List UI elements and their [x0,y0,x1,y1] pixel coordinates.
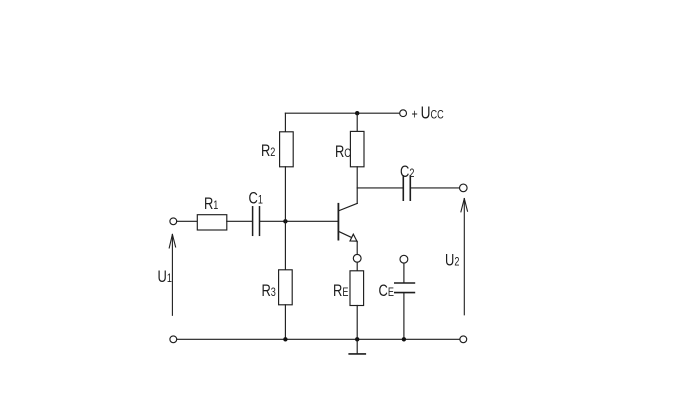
wire top rail [285,112,399,114]
wire CE circle to plates [403,263,405,282]
junction top rail / RC [355,111,359,115]
terminal +UCC [400,110,407,117]
wire R2 bottom to node B [284,167,286,222]
terminal emitter circle [353,254,361,262]
label R1 [204,194,218,213]
source arrow U1 [169,234,175,315]
wire circle to RE [356,262,358,271]
ground [349,339,365,354]
source arrow U2 [461,199,468,315]
label RC [335,142,351,161]
capacitor CE [395,283,415,293]
wire CE bottom to rail [403,293,405,339]
wire node B down to R3 [284,221,286,269]
transistor Q1 [338,203,357,241]
resistor R1 [197,215,227,230]
label U1 [158,267,172,286]
label R3 [262,281,276,300]
terminal bottom left [170,336,177,343]
wire collector node to C2 [357,187,402,189]
junction rail CE [402,337,406,341]
wire base (node B to transistor) [285,220,338,222]
terminal input [170,218,177,225]
wire RC bottom to collector node [356,167,358,204]
junction node B [283,219,287,223]
terminal CE circle [400,255,408,263]
resistor R3 [279,270,293,305]
wire RE bottom to rail [356,306,358,340]
label CE [379,281,394,300]
resistor RE [350,271,364,306]
label RE [333,281,348,300]
resistor RC [350,131,364,166]
wire R3 bottom to rail [284,305,286,340]
terminal bottom right [460,336,467,343]
label C2 [400,162,414,181]
wire emitter down [356,242,358,255]
capacitor C1 [253,207,260,236]
capacitor C2 [403,176,410,200]
wire input to R1 [177,220,198,222]
junction rail R3 [283,337,287,341]
terminal output [460,184,468,192]
wire RC top [356,113,358,131]
junction rail RE [355,337,359,341]
label R2 [261,141,275,160]
resistor R2 [280,132,294,167]
wire R2 top [284,113,286,132]
wire C2 to output terminal [411,187,459,189]
wire bottom rail [177,338,460,340]
label +UCC [412,104,444,123]
wire C1 to node B [260,220,285,222]
wire R1 to C1 [227,220,252,222]
label C1 [249,189,263,208]
label U2 [445,251,459,270]
